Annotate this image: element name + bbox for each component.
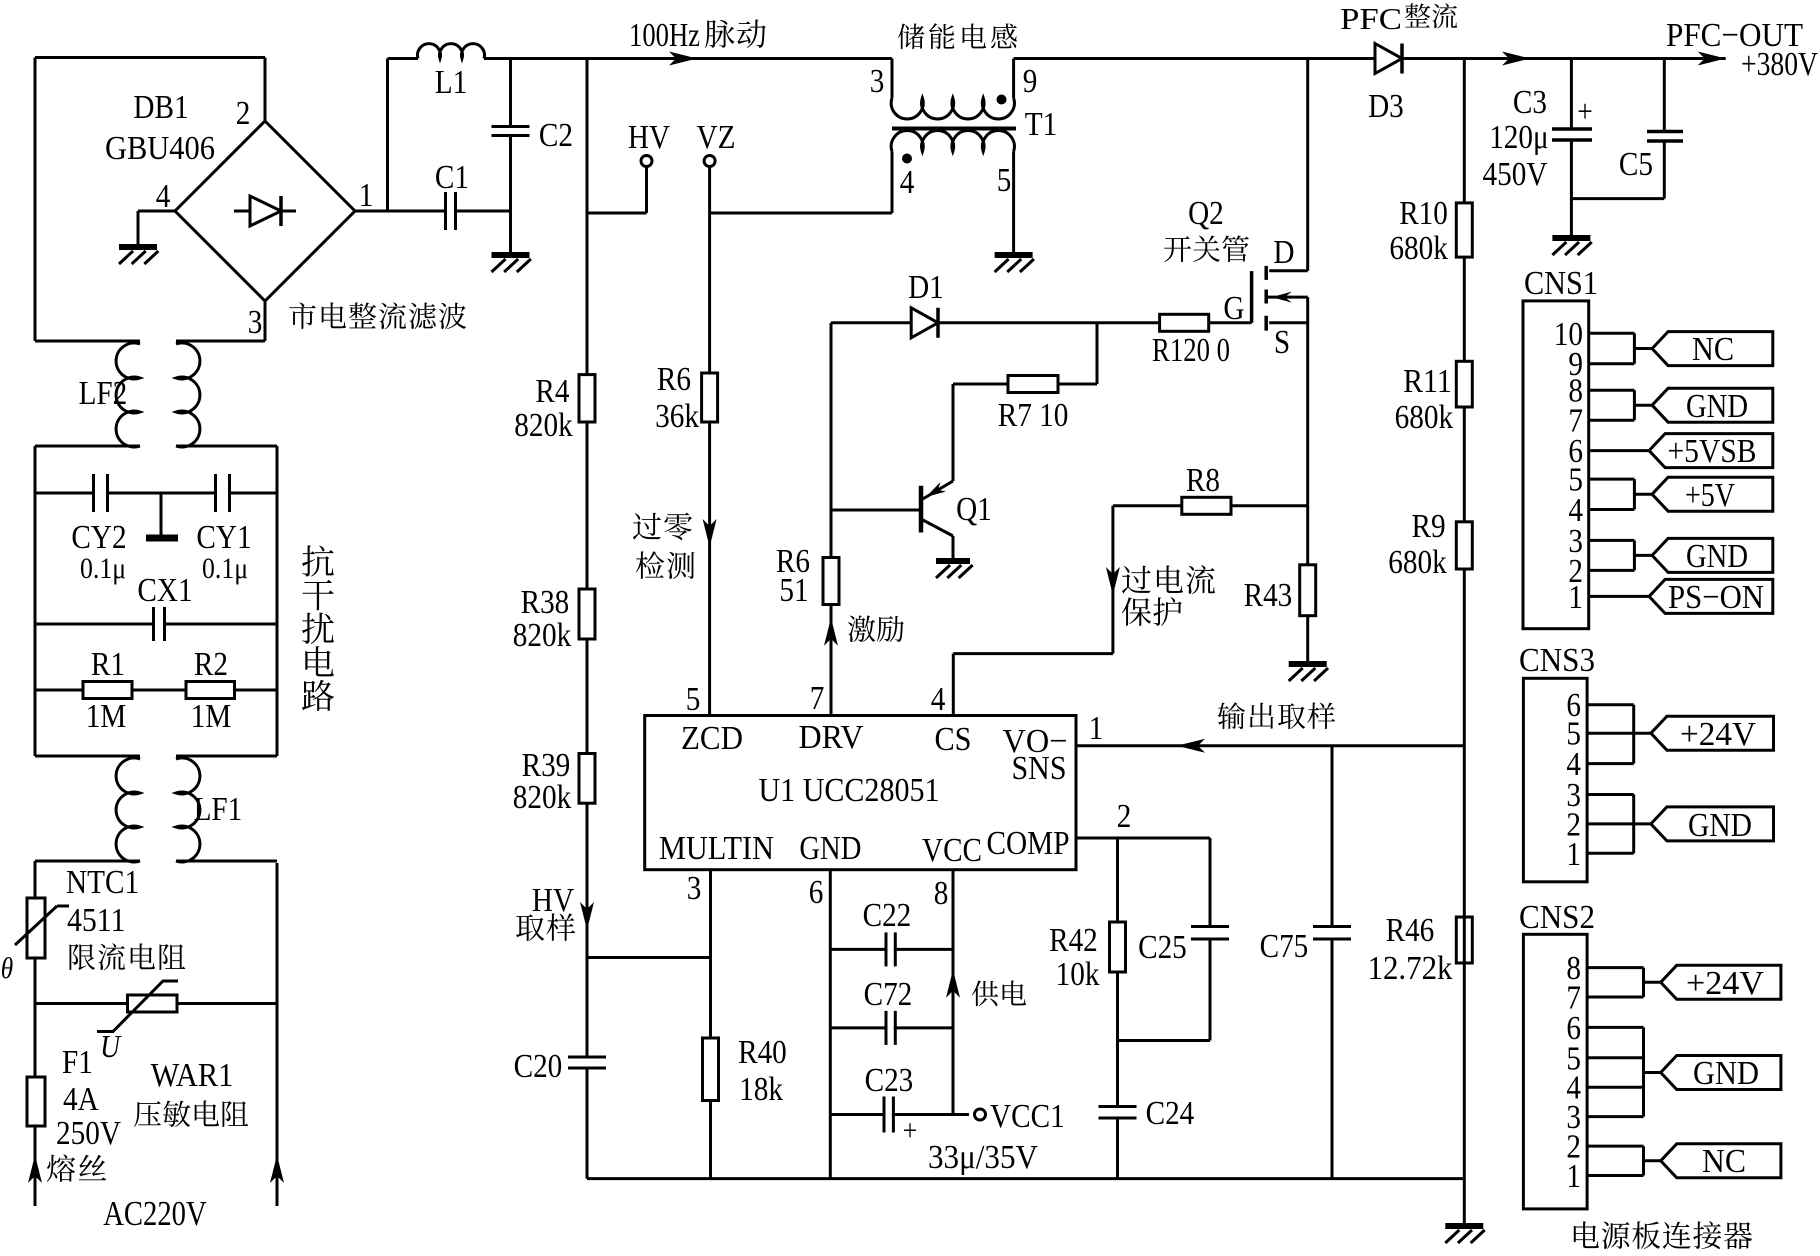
svg-text:CNS2: CNS2	[1519, 899, 1595, 936]
capacitor CY2	[94, 474, 108, 512]
label LF1	[194, 791, 243, 828]
wire bottom rail	[587, 1177, 1464, 1180]
inductor L1	[388, 44, 511, 211]
svg-text:+24V: +24V	[1680, 716, 1756, 753]
svg-text:18k: 18k	[739, 1071, 783, 1108]
capacitor C23	[830, 1062, 969, 1147]
wire S to R43	[1306, 506, 1309, 565]
wire CX line	[35, 623, 277, 626]
capacitor C75	[1260, 746, 1351, 1179]
wire LF1 bottom right	[176, 860, 277, 863]
label U1 pins top	[686, 680, 1104, 747]
arrow HV sample	[580, 902, 594, 930]
svg-text:CY1: CY1	[196, 519, 251, 556]
svg-text:+5V: +5V	[1685, 477, 1735, 514]
label 过电流保护	[1122, 565, 1215, 626]
label U1 texts	[659, 719, 1070, 869]
svg-text:GND: GND	[799, 830, 861, 867]
choke LF2 left winding	[116, 343, 140, 447]
capacitor C24	[1099, 1095, 1195, 1132]
resistor R46	[1368, 912, 1473, 987]
arrow overcurrent	[1106, 567, 1120, 595]
svg-text:8: 8	[934, 875, 949, 912]
svg-text:GND: GND	[1686, 388, 1748, 425]
label 33u/35V	[928, 1139, 1038, 1176]
svg-text:36k: 36k	[655, 398, 699, 435]
capacitor CY1	[216, 474, 230, 512]
pin CNS1 6 tab	[1589, 449, 1649, 452]
resistor R9	[1388, 508, 1472, 581]
svg-text:+: +	[1577, 93, 1593, 129]
svg-text:GND: GND	[1688, 807, 1752, 844]
svg-text:COMP: COMP	[987, 825, 1070, 862]
svg-text:D3: D3	[1368, 88, 1404, 125]
svg-text:R10: R10	[1399, 195, 1448, 232]
capacitor CX1	[154, 607, 165, 641]
label 熔丝	[47, 1154, 107, 1182]
wire R8 to Q2 source	[1231, 504, 1308, 507]
resistor R40	[703, 1034, 787, 1108]
capacitor C25	[1138, 838, 1229, 1041]
thermistor NTC1	[15, 898, 69, 958]
resistor R38	[513, 584, 595, 654]
capacitor C3	[1552, 59, 1593, 237]
svg-text:θ: θ	[1, 952, 14, 985]
ground (bridge)	[119, 247, 158, 264]
resistor R7	[953, 323, 1097, 434]
svg-text:+: +	[903, 1114, 918, 1147]
wire R43 to ground	[1306, 616, 1309, 664]
pins CNS3 6-5-4 tab	[1587, 705, 1651, 764]
phase dot (primary)	[997, 95, 1007, 105]
resistor R4	[514, 373, 595, 444]
svg-text:C1: C1	[435, 159, 469, 196]
svg-text:C22: C22	[863, 897, 912, 934]
svg-text:+5VSB: +5VSB	[1668, 433, 1757, 470]
resistor R1	[83, 646, 132, 735]
pin CNS1 1 tab	[1589, 595, 1649, 598]
flag GND (CNS3)	[1651, 807, 1774, 844]
flag NC (CNS1)	[1652, 331, 1773, 368]
label T1 pins	[870, 63, 1038, 201]
wire HV divider line	[586, 59, 589, 1179]
svg-text:1: 1	[1089, 710, 1104, 747]
wire VZ line	[708, 213, 711, 716]
wire WAR1 line	[35, 1002, 277, 1005]
svg-text:51: 51	[779, 572, 808, 609]
pins CNS2 8-7 tab	[1587, 968, 1661, 997]
label U	[100, 1028, 122, 1064]
svg-text:DB1: DB1	[133, 89, 188, 126]
choke LF1 left winding	[116, 758, 140, 862]
capacitor C20	[514, 1048, 606, 1085]
svg-text:DRV: DRV	[799, 719, 864, 756]
svg-text:MULTIN: MULTIN	[659, 830, 774, 867]
svg-text:VCC1: VCC1	[990, 1098, 1065, 1135]
chassis bar (CY ground)	[146, 535, 178, 542]
wire R42-C25 bottom	[1118, 1039, 1211, 1042]
svg-text:+380V: +380V	[1741, 46, 1818, 83]
svg-text:R8: R8	[1186, 462, 1220, 499]
pins CNS1 8-7 tab	[1589, 390, 1652, 420]
wire output sample	[1076, 739, 1464, 753]
svg-text:NC: NC	[1692, 331, 1734, 368]
resistor R6(51)	[776, 543, 839, 609]
svg-text:1: 1	[1568, 579, 1583, 616]
phase dot (secondary)	[902, 154, 912, 164]
label Q2 pins	[1223, 234, 1294, 361]
flag NC (CNS2)	[1661, 1143, 1781, 1180]
svg-text:L1: L1	[435, 64, 468, 101]
svg-text:820k: 820k	[513, 779, 572, 816]
wire C3-C5 bottom	[1571, 197, 1664, 200]
svg-text:5: 5	[686, 681, 701, 718]
wire main rail L1 to T1	[511, 57, 893, 60]
wire rail D3 to output	[1402, 57, 1726, 60]
svg-text:CX1: CX1	[137, 572, 192, 609]
label 抗干扰电路	[302, 545, 334, 711]
transistor Q1	[831, 384, 953, 561]
svg-text:+24V: +24V	[1686, 965, 1764, 1002]
flag +5V	[1652, 477, 1773, 514]
wire LF1 top left	[35, 755, 140, 758]
transformer T1 secondary	[891, 131, 1014, 152]
wire bridge pin3 down	[264, 301, 267, 341]
resistor R11	[1395, 361, 1473, 436]
wire AC left with arrow	[28, 1126, 42, 1206]
wire R10 column	[1463, 59, 1466, 1179]
flag GND (CNS1 3-2)	[1652, 538, 1773, 575]
svg-text:820k: 820k	[513, 617, 572, 654]
wire LF1 top right	[176, 755, 277, 758]
svg-text:R11: R11	[1403, 363, 1452, 400]
terminal HV	[587, 119, 670, 213]
svg-text:1: 1	[359, 177, 374, 214]
pins CNS1 10-9 tab	[1589, 333, 1652, 363]
connector CNS1	[1523, 265, 1598, 629]
capacitor C1	[435, 159, 469, 230]
svg-text:U: U	[100, 1028, 122, 1064]
svg-text:C72: C72	[864, 976, 913, 1013]
svg-text:5: 5	[997, 162, 1012, 199]
svg-text:HV: HV	[532, 882, 575, 919]
svg-text:120μ: 120μ	[1489, 119, 1549, 156]
label F1	[56, 1044, 121, 1152]
svg-text:820k: 820k	[514, 407, 573, 444]
svg-text:C2: C2	[539, 117, 573, 154]
svg-text:4511: 4511	[67, 902, 126, 939]
svg-text:R42: R42	[1049, 922, 1098, 959]
wire LF2 top right	[176, 340, 265, 343]
svg-text:CNS1: CNS1	[1524, 265, 1598, 302]
label Q1	[956, 491, 992, 528]
svg-text:R38: R38	[521, 584, 570, 621]
svg-text:C75: C75	[1260, 928, 1309, 965]
pins CNS2 6-5-4-3 tab	[1587, 1027, 1661, 1116]
svg-text:R40: R40	[738, 1034, 787, 1071]
svg-text:C20: C20	[514, 1048, 563, 1085]
resistor R42	[1049, 922, 1125, 993]
svg-text:7: 7	[810, 680, 825, 717]
wire MULTIN line	[709, 870, 712, 1179]
wire DRV top corner	[830, 323, 833, 716]
svg-text:R7 10: R7 10	[998, 397, 1069, 434]
ground (R43)	[1289, 664, 1328, 681]
svg-text:GBU406: GBU406	[105, 130, 215, 167]
svg-text:R4: R4	[535, 373, 569, 410]
svg-text:1M: 1M	[86, 698, 127, 735]
choke LF2 right winding	[176, 343, 200, 447]
transformer T1 primary	[891, 98, 1014, 119]
svg-text:R43: R43	[1244, 577, 1293, 614]
flag GND (CNS2)	[1661, 1055, 1781, 1092]
ground (main)	[1445, 1226, 1484, 1243]
capacitor C22	[830, 897, 953, 966]
svg-text:T1: T1	[1025, 106, 1058, 143]
transistor Q2	[1252, 266, 1308, 506]
label C3	[1483, 84, 1549, 193]
wire VCC pin line	[952, 870, 955, 1115]
svg-text:4: 4	[931, 681, 946, 718]
capacitor C5	[1619, 59, 1683, 199]
wire T1 pin9 corner	[1012, 59, 1015, 99]
core T1	[892, 127, 1016, 131]
svg-text:HV: HV	[628, 119, 671, 156]
svg-text:CNS3: CNS3	[1519, 642, 1595, 679]
label theta	[1, 952, 14, 985]
label PFC-OUT	[1666, 17, 1818, 83]
svg-text:2: 2	[236, 95, 251, 132]
arrow PFC out	[1698, 52, 1726, 66]
svg-text:680k: 680k	[1389, 230, 1448, 267]
flag +24V (CNS3)	[1651, 716, 1774, 753]
svg-text:6: 6	[809, 874, 824, 911]
resistor R10	[1389, 195, 1472, 267]
wire rail to ground	[1463, 1179, 1466, 1225]
svg-text:NTC1: NTC1	[66, 864, 139, 901]
label 输出取样	[1218, 702, 1335, 729]
wire LF2 bottom left	[35, 446, 140, 756]
wire Q2 drain to rail	[1306, 59, 1309, 271]
svg-text:250V: 250V	[56, 1115, 121, 1152]
connector CNS2	[1519, 899, 1595, 1209]
label 激励	[848, 616, 904, 643]
svg-text:NC: NC	[1702, 1143, 1746, 1180]
svg-text:D1: D1	[908, 269, 944, 306]
capacitor C2	[492, 59, 574, 256]
varistor WAR1	[97, 981, 178, 1032]
terminal VZ	[697, 119, 736, 213]
svg-text:C25: C25	[1138, 929, 1187, 966]
diode D3	[1368, 44, 1404, 126]
svg-text:R9: R9	[1412, 508, 1446, 545]
flag +24V (CNS2)	[1661, 965, 1781, 1002]
arrow drive	[824, 618, 838, 646]
label Q2	[1164, 195, 1249, 262]
label 限流电阻	[69, 943, 185, 970]
ground (T1)	[995, 255, 1034, 272]
wire T1 pin3 corner	[891, 59, 894, 99]
svg-text:R120 0: R120 0	[1152, 332, 1230, 369]
svg-text:VZ: VZ	[697, 119, 736, 156]
label 100Hz脉动	[629, 17, 766, 54]
label PFC整流	[1340, 1, 1457, 36]
svg-text:4A: 4A	[63, 1081, 99, 1118]
terminal VCC1	[975, 1098, 1065, 1135]
svg-text:1: 1	[1566, 836, 1581, 873]
svg-text:C23: C23	[865, 1062, 914, 1099]
arrow PFC mid	[1502, 52, 1530, 66]
label NTC1	[66, 864, 139, 939]
pins CNS1 5-4 tab	[1589, 479, 1652, 509]
svg-text:680k: 680k	[1395, 399, 1454, 436]
label U1 pins bottom	[687, 798, 1132, 912]
label LF2	[79, 375, 128, 412]
label 供电	[972, 980, 1026, 1006]
svg-text:PFC: PFC	[1340, 1, 1402, 36]
svg-text:Q1: Q1	[956, 491, 992, 528]
svg-text:4: 4	[900, 164, 915, 201]
wire D1 line	[831, 321, 1160, 324]
svg-text:3: 3	[687, 870, 702, 907]
svg-text:CS: CS	[935, 721, 972, 758]
wire rail T1 to D3	[1014, 57, 1375, 60]
wire AC loop top edge	[35, 58, 265, 342]
label HV取样	[516, 882, 575, 941]
label AC220V	[103, 1194, 207, 1233]
svg-text:680k: 680k	[1388, 544, 1447, 581]
svg-text:AC220V: AC220V	[103, 1194, 207, 1233]
wire T1 pin4 to VZ	[710, 152, 892, 214]
svg-text:R46: R46	[1386, 912, 1435, 949]
label 压敏电阻	[134, 1100, 248, 1127]
svg-text:R6: R6	[657, 361, 691, 398]
svg-text:U1 UCC28051: U1 UCC28051	[759, 772, 940, 809]
label 储能电感	[898, 23, 1017, 49]
resistor R120	[1152, 314, 1230, 369]
svg-text:R1: R1	[91, 646, 125, 683]
wire C1 to C2	[456, 210, 511, 213]
svg-text:WAR1: WAR1	[151, 1057, 234, 1094]
svg-text:12.72k: 12.72k	[1368, 950, 1453, 987]
wire COMP down	[1116, 838, 1119, 1179]
svg-text:CY2: CY2	[71, 519, 126, 556]
wire CY center stub	[160, 493, 163, 537]
svg-text:Q2: Q2	[1188, 195, 1224, 232]
capacitor C72	[830, 976, 953, 1045]
wire COMP	[1076, 837, 1210, 840]
resistor R39	[513, 747, 595, 816]
svg-text:C5: C5	[1619, 146, 1653, 183]
svg-text:C3: C3	[1513, 84, 1547, 121]
svg-text:C24: C24	[1146, 1095, 1195, 1132]
svg-text:SNS: SNS	[1012, 750, 1067, 787]
label WAR1	[151, 1057, 234, 1094]
wire LF2 bottom right	[176, 446, 277, 756]
pins CNS2 2-1 tab	[1587, 1146, 1661, 1175]
wire AC right with arrow	[270, 863, 284, 1206]
connector CNS3	[1519, 642, 1595, 882]
label CX1	[137, 572, 192, 609]
svg-text:10k: 10k	[1056, 956, 1100, 993]
resistor R8	[1182, 462, 1231, 514]
label T1	[1025, 106, 1058, 143]
svg-text:GND: GND	[1686, 538, 1748, 575]
arrow 100Hz	[669, 52, 697, 66]
svg-text:4: 4	[156, 178, 171, 215]
label 市电整流滤波	[289, 302, 466, 329]
svg-text:33μ/35V: 33μ/35V	[928, 1139, 1038, 1176]
svg-text:LF2: LF2	[79, 375, 128, 412]
flag PS-ON	[1649, 579, 1773, 616]
fuse F1	[27, 1077, 45, 1126]
svg-text:3: 3	[870, 63, 885, 100]
flag +5VSB	[1649, 433, 1773, 470]
arrow supply	[946, 970, 960, 998]
svg-text:D: D	[1273, 234, 1294, 271]
label CY1	[196, 519, 251, 585]
wire R1R2 line	[35, 689, 277, 692]
ground (C3)	[1552, 238, 1591, 255]
svg-text:450V: 450V	[1483, 156, 1548, 193]
svg-text:1: 1	[1566, 1158, 1581, 1195]
svg-text:3: 3	[248, 304, 263, 341]
svg-text:0.1μ: 0.1μ	[80, 552, 126, 585]
svg-text:1M: 1M	[191, 698, 232, 735]
label CY2	[71, 519, 126, 585]
svg-text:LF1: LF1	[194, 791, 243, 828]
svg-text:S: S	[1274, 324, 1290, 361]
wire bridge pin1 to C1 line	[355, 210, 446, 213]
bridge rectifier DB1	[105, 89, 373, 341]
svg-text:R2: R2	[194, 646, 228, 683]
svg-text:0.1μ: 0.1μ	[202, 552, 248, 585]
svg-text:F1: F1	[62, 1044, 93, 1081]
wire R120 to gate	[1209, 321, 1252, 324]
wire bridge pin4 to ground	[138, 211, 175, 247]
label 电源板连接器	[1574, 1221, 1752, 1249]
pins CNS1 3-2 tab	[1589, 540, 1652, 570]
svg-text:PS−ON: PS−ON	[1668, 579, 1764, 616]
ground (Q1)	[936, 561, 973, 578]
svg-text:9: 9	[1023, 63, 1038, 100]
ground (C2)	[492, 255, 531, 272]
arrow zero-cross	[703, 519, 717, 547]
svg-text:100Hz: 100Hz	[629, 17, 700, 54]
label 过零检测	[633, 513, 695, 579]
resistor R43	[1244, 565, 1316, 616]
wire HV sample	[587, 956, 711, 959]
wire left edge NTC to F1	[34, 958, 37, 1077]
svg-text:2: 2	[1117, 798, 1132, 835]
wire LF1 bottom left	[35, 861, 140, 898]
svg-text:VCC: VCC	[922, 832, 982, 869]
IC U1 UCC28051 box	[645, 716, 1076, 870]
pins CNS3 3-2-1 tab	[1587, 795, 1651, 854]
wire CS line	[953, 506, 1113, 716]
resistor R2	[186, 646, 235, 735]
choke LF1 right winding	[176, 758, 200, 862]
flag GND (CNS1 8-7)	[1652, 388, 1773, 425]
wire GND pin line	[829, 870, 832, 1179]
svg-text:GND: GND	[1693, 1055, 1759, 1092]
wire LF2 top left	[35, 340, 140, 343]
diode D1	[908, 269, 944, 338]
wire R8 line	[1113, 504, 1182, 507]
resistor R6(36k)	[655, 361, 718, 435]
wire T1 pin5 to ground	[1012, 152, 1015, 256]
svg-text:ZCD: ZCD	[681, 720, 743, 757]
